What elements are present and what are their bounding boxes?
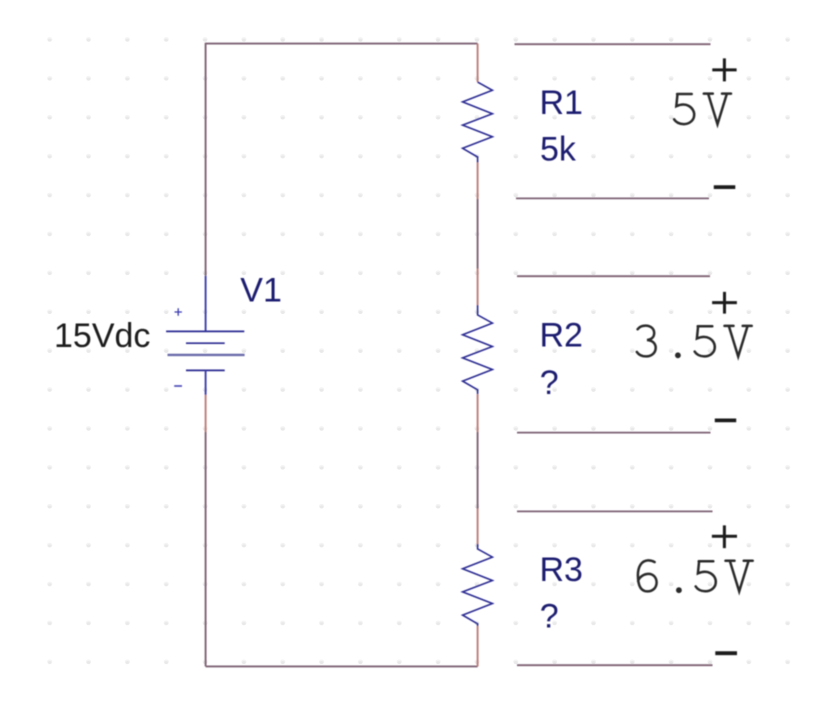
measurement text 3.5V (637, 326, 752, 359)
resistor R3 zigzag (463, 544, 493, 626)
wire: R2 top pin stub (477, 269, 479, 306)
battery V1 plate 1 long (166, 330, 244, 332)
wire: R3 bottom pin stub (477, 626, 479, 666)
wire: V1 minus pin stub (blue) (205, 370, 207, 395)
resistor R2 zigzag (463, 305, 493, 394)
wire: bottom horizontal net (206, 665, 478, 667)
svg-text:?: ? (540, 598, 559, 636)
wire: R3 top pin stub (477, 509, 479, 545)
svg-text:?: ? (540, 364, 559, 402)
svg-text:15Vdc: 15Vdc (54, 317, 150, 355)
wire: net between R1 and R2 (477, 199, 479, 269)
wire: R1 bottom pin stub (477, 163, 479, 200)
minus sign for 6.5V measurement (715, 651, 737, 655)
plus sign for 3.5V measurement (712, 292, 737, 314)
wire: left vertical net down to bottom rail (205, 432, 207, 666)
minus sign for 3.5V measurement (715, 418, 736, 422)
wire: left vertical net from top corner to V1 plus pin (205, 43, 207, 276)
probe line: R2 top (517, 275, 710, 277)
resistor R1 zigzag (463, 82, 493, 162)
svg-text:5k: 5k (540, 130, 577, 168)
battery V1 plate 2 short (186, 342, 225, 344)
wire: R2 bottom pin stub (477, 394, 479, 432)
wire: top horizontal net from V1+ to R1 (206, 43, 478, 45)
probe line: R1 bottom (516, 197, 709, 199)
minus sign for 5V measurement (714, 185, 736, 189)
wire: salmon pin segment below V1 (205, 395, 207, 432)
measurement text 5V (674, 94, 731, 125)
svg-text:V1: V1 (240, 271, 282, 309)
probe line: R2 bottom (517, 432, 711, 434)
battery V1 minus polarity mark (174, 385, 182, 387)
wire: V1 plus pin stub (blue) (205, 276, 207, 332)
wire: net between R2 and R3 (477, 432, 479, 509)
probe line: R3 bottom (517, 664, 713, 666)
svg-text:R3: R3 (540, 551, 583, 589)
probe line: R1 top (+5V side) (515, 43, 711, 45)
svg-text:R1: R1 (540, 84, 583, 122)
probe line: R3 top (517, 510, 713, 512)
wire: R1 top pin stub (477, 44, 479, 83)
plus sign for 5V measurement (712, 58, 736, 81)
battery V1 plate 3 long (168, 354, 245, 356)
svg-text:R2: R2 (540, 317, 583, 355)
battery V1 plus polarity mark (175, 308, 182, 315)
battery V1 plate 4 short (186, 369, 225, 371)
measurement text 6.5V (638, 560, 753, 593)
plus sign for 6.5V measurement (712, 525, 737, 548)
